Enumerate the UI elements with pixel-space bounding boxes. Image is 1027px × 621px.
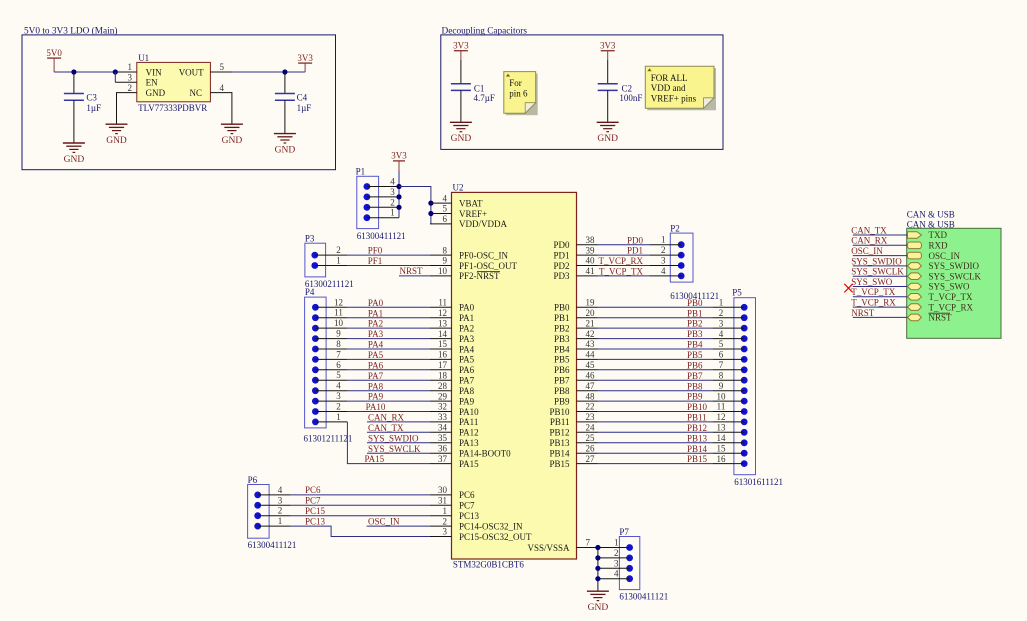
svg-text:CAN_RX: CAN_RX — [368, 413, 405, 423]
svg-text:3V3: 3V3 — [391, 151, 407, 161]
power flag 5V0 — [46, 48, 62, 72]
connector P7 61300411121 — [619, 527, 668, 602]
wire net PB5 (U2 to P5.6) — [598, 350, 712, 360]
P1 pin 2 — [364, 197, 400, 210]
wire net T_VCP_RX to sheet pin T_VCP_RX — [851, 298, 907, 308]
svg-text:40: 40 — [586, 256, 596, 266]
P4 pin 2 — [312, 402, 347, 415]
connector P3 61300211121 — [305, 234, 354, 289]
no-connect marker (red X) at SYS_SWO — [844, 284, 852, 293]
svg-text:2: 2 — [614, 548, 619, 558]
wire net PF1 (P3.1 to U2.9) — [347, 256, 430, 266]
U2 pin 6 (VDD/VDDA) — [430, 214, 507, 229]
wire net CAN_TX to sheet pin TXD — [851, 225, 907, 235]
svg-text:PC14-OSC32_IN: PC14-OSC32_IN — [459, 521, 523, 531]
P7 pin 1 — [598, 538, 633, 551]
wire net SYS_SWDIO at U2 — [367, 433, 430, 443]
U2 pin 43 (PB4) — [554, 339, 598, 354]
svg-text:4: 4 — [443, 193, 448, 203]
svg-text:16: 16 — [717, 454, 727, 464]
svg-text:PB0: PB0 — [687, 298, 703, 308]
svg-text:PC13: PC13 — [459, 511, 480, 521]
svg-text:4.7µF: 4.7µF — [474, 93, 495, 103]
U2 pin 23 (PB11) — [550, 412, 598, 427]
svg-text:PB5: PB5 — [687, 350, 703, 360]
junction P7 bus row 4 — [595, 576, 600, 581]
svg-text:PB15: PB15 — [549, 459, 570, 469]
svg-text:12: 12 — [438, 308, 447, 318]
U1 pin 3 (EN) — [115, 73, 137, 83]
P4 pin 9 — [312, 329, 347, 342]
wire net PB11 (U2 to P5.12) — [598, 413, 712, 423]
svg-text:NRST: NRST — [929, 313, 953, 323]
svg-text:2: 2 — [278, 506, 283, 516]
svg-text:PD1: PD1 — [627, 246, 643, 256]
svg-text:1: 1 — [278, 516, 283, 526]
P6 pin 4 — [254, 485, 290, 498]
svg-text:RXD: RXD — [929, 241, 949, 251]
junction at C3 top — [71, 69, 76, 74]
connector P1 61300411121 — [356, 167, 406, 242]
svg-text:NRST: NRST — [400, 266, 424, 276]
svg-text:9: 9 — [443, 256, 448, 266]
junction at U2 VREF+ — [428, 211, 433, 216]
wire net PA8 — [347, 381, 430, 391]
sheet pin RXD — [908, 241, 949, 251]
svg-text:PF2-NRST: PF2-NRST — [459, 271, 500, 281]
U2 pin 14 (PA3) — [430, 329, 475, 344]
svg-text:PB6: PB6 — [687, 360, 703, 370]
P1 pin 4 — [364, 177, 400, 190]
svg-text:33: 33 — [438, 412, 448, 422]
svg-text:PB13: PB13 — [549, 438, 570, 448]
svg-text:PB7: PB7 — [554, 376, 570, 386]
wire net PA3 — [347, 329, 430, 339]
svg-text:4: 4 — [614, 569, 619, 579]
svg-text:SYS_SWO: SYS_SWO — [851, 277, 893, 287]
svg-text:21: 21 — [586, 318, 595, 328]
P5 pin 13 — [712, 423, 747, 436]
wire net SYS_SWCLK to sheet pin SYS_SWCLK — [851, 267, 907, 277]
svg-text:PB2: PB2 — [554, 323, 570, 333]
svg-text:3: 3 — [614, 558, 619, 568]
svg-text:C3: C3 — [86, 92, 97, 102]
sheet pin NRST — [908, 313, 953, 323]
wire net PC6 (P6.4 to U2.30) — [291, 485, 430, 495]
svg-text:P7: P7 — [619, 527, 629, 537]
sheet area box: Decoupling Capacitors — [441, 26, 723, 149]
svg-text:PA5: PA5 — [459, 355, 475, 365]
wire net PB0 (U2 to P5.1) — [598, 298, 712, 308]
P1 pin 3 — [364, 187, 400, 200]
svg-text:pin 6: pin 6 — [509, 89, 528, 99]
svg-text:8: 8 — [336, 339, 341, 349]
wire net PB2 (U2 to P5.3) — [598, 319, 712, 329]
svg-text:T_VCP_TX: T_VCP_TX — [851, 287, 896, 297]
wire net SYS_SWCLK at U2 — [367, 444, 430, 454]
svg-text:PB14: PB14 — [549, 449, 570, 459]
svg-text:PA3: PA3 — [368, 329, 384, 339]
svg-text:PA11: PA11 — [459, 417, 478, 427]
svg-text:37: 37 — [438, 454, 448, 464]
sheet pin OSC_IN — [908, 251, 961, 261]
svg-text:PF1: PF1 — [368, 256, 383, 266]
U2 pin 3 (PC15-OSC32_OUT) — [430, 527, 532, 542]
svg-text:VSS/VSSA: VSS/VSSA — [527, 543, 570, 553]
sheet pin TXD — [908, 230, 948, 240]
sheet pin T_VCP_TX — [908, 292, 974, 302]
sheet symbol CAN & USB — [907, 209, 1001, 338]
wire net SYS_SWDIO to sheet pin SYS_SWDIO — [851, 256, 907, 266]
svg-text:18: 18 — [438, 370, 448, 380]
U1 pin 5 (VOUT) — [210, 62, 232, 72]
svg-text:PA2: PA2 — [368, 319, 383, 329]
power flag 3V3 at LDO output — [297, 53, 313, 72]
svg-text:PD2: PD2 — [553, 261, 569, 271]
svg-text:PB3: PB3 — [554, 334, 570, 344]
svg-text:1: 1 — [719, 298, 724, 308]
svg-text:1: 1 — [390, 208, 395, 218]
U2 pin 34 (PA12) — [430, 423, 479, 438]
svg-text:PB8: PB8 — [687, 381, 703, 391]
svg-text:2: 2 — [336, 245, 341, 255]
wire net OSC_IN to U2.2 — [367, 516, 430, 526]
svg-text:8: 8 — [443, 245, 448, 255]
U2 pin 26 (PB14) — [549, 443, 597, 458]
svg-text:7: 7 — [336, 349, 341, 359]
U2 pin 20 (PB1) — [554, 308, 598, 323]
wire net OSC_IN to sheet pin OSC_IN — [851, 246, 907, 256]
P7 pin 4 — [598, 569, 633, 582]
regulator U1 body — [137, 53, 211, 113]
U2 pin 10 (PF2-NRST) — [430, 266, 500, 281]
svg-text:GND: GND — [222, 136, 243, 146]
svg-text:CAN_TX: CAN_TX — [368, 423, 404, 433]
svg-text:4: 4 — [278, 485, 283, 495]
svg-text:PB9: PB9 — [687, 392, 703, 402]
P3 pin 2 — [311, 245, 347, 258]
svg-text:3: 3 — [390, 187, 395, 197]
P5 pin 16 — [712, 454, 747, 467]
P4 pin 12 — [312, 297, 347, 310]
P5 pin 12 — [712, 412, 747, 425]
svg-text:PD0: PD0 — [627, 235, 644, 245]
wire net PF0 (P3.2 to U2.8) — [347, 245, 430, 255]
svg-text:GND: GND — [146, 88, 166, 98]
svg-text:PA10: PA10 — [366, 402, 386, 412]
wire P1 to U2 power pins — [399, 187, 431, 224]
ground GND under C4 — [274, 134, 296, 156]
svg-text:C1: C1 — [474, 83, 485, 93]
svg-text:46: 46 — [586, 370, 596, 380]
wire net PC13 (P6.1 to U2.3) — [291, 516, 430, 536]
wire net PB3 (U2 to P5.4) — [598, 329, 712, 339]
svg-text:VOUT: VOUT — [179, 67, 204, 77]
U2 pin 7 (VSS/VSSA) — [527, 538, 597, 553]
U2 pin 45 (PB6) — [554, 360, 598, 375]
svg-text:PB11: PB11 — [687, 413, 707, 423]
P2 pin 3 — [649, 256, 684, 269]
svg-text:PC13: PC13 — [305, 516, 326, 526]
U2 pin 32 (PA10) — [430, 402, 479, 417]
ground GND under C2 — [597, 122, 619, 144]
P2 pin 1 — [649, 235, 684, 248]
svg-text:14: 14 — [717, 433, 727, 443]
svg-text:3: 3 — [719, 318, 724, 328]
P4 pin 10 — [312, 318, 347, 331]
svg-text:43: 43 — [586, 339, 596, 349]
P4 pin 3 — [312, 391, 347, 404]
svg-text:6: 6 — [336, 360, 341, 370]
U2 pin 31 (PC7) — [430, 496, 475, 511]
svg-text:5V0 to 3V3 LDO (Main): 5V0 to 3V3 LDO (Main) — [24, 25, 117, 36]
P4 pin 6 — [312, 360, 347, 373]
svg-text:PA12: PA12 — [459, 428, 479, 438]
power flag 3V3 at P1 — [391, 151, 407, 171]
svg-text:PA10: PA10 — [459, 407, 479, 417]
P5 pin 1 — [712, 298, 747, 311]
U2 pin 33 (PA11) — [430, 412, 478, 427]
P6 pin 3 — [254, 495, 290, 508]
svg-text:P5: P5 — [732, 288, 742, 298]
svg-text:3: 3 — [661, 256, 666, 266]
svg-text:5: 5 — [220, 62, 225, 72]
P4 pin 11 — [312, 308, 347, 321]
svg-text:SYS_SWDIO: SYS_SWDIO — [368, 433, 419, 443]
svg-text:PA1: PA1 — [368, 308, 383, 318]
svg-text:VDD and: VDD and — [651, 83, 686, 93]
U2 pin 24 (PB12) — [549, 423, 597, 438]
svg-text:EN: EN — [146, 78, 158, 88]
svg-text:5: 5 — [719, 339, 724, 349]
P5 pin 14 — [712, 433, 747, 446]
svg-text:12: 12 — [334, 297, 343, 307]
svg-text:PB1: PB1 — [554, 313, 570, 323]
svg-text:PA8: PA8 — [459, 386, 475, 396]
svg-text:29: 29 — [438, 391, 448, 401]
U2 pin 5 (VREF+) — [430, 204, 487, 219]
svg-text:PA14-BOOT0: PA14-BOOT0 — [459, 449, 511, 459]
svg-text:NC: NC — [189, 88, 202, 98]
wire net PB13 (U2 to P5.14) — [598, 433, 712, 443]
wire P1 bus vertical — [398, 187, 400, 218]
svg-text:P6: P6 — [248, 475, 258, 485]
svg-text:13: 13 — [717, 423, 727, 433]
svg-text:5V0: 5V0 — [46, 48, 62, 58]
svg-text:OSC_IN: OSC_IN — [851, 246, 883, 256]
svg-text:61300411121: 61300411121 — [357, 231, 406, 241]
svg-text:PA7: PA7 — [368, 371, 384, 381]
svg-text:C2: C2 — [622, 83, 633, 93]
U2 pin 2 (PC14-OSC32_IN) — [430, 516, 523, 531]
svg-text:61301211121: 61301211121 — [304, 434, 353, 444]
svg-text:1: 1 — [614, 538, 619, 548]
svg-text:PB4: PB4 — [554, 344, 570, 354]
svg-text:1: 1 — [336, 412, 341, 422]
svg-text:61301611121: 61301611121 — [734, 477, 783, 487]
wire net NRST to U2.10 — [399, 266, 430, 276]
ground GND under U1 pin 2 — [106, 124, 128, 146]
wire net PA6 — [347, 360, 430, 370]
svg-text:6: 6 — [719, 350, 724, 360]
capacitor C4 1uF — [275, 72, 311, 134]
svg-text:2: 2 — [336, 402, 341, 412]
svg-text:19: 19 — [586, 298, 596, 308]
wire U2 VSS to P7 bus — [597, 547, 599, 549]
power flag 3V3 above C2 — [600, 41, 616, 61]
svg-text:PA15: PA15 — [365, 454, 385, 464]
wire net NRST to sheet pin NRST — [851, 308, 907, 318]
svg-text:14: 14 — [438, 329, 448, 339]
U2 pin 29 (PA9) — [430, 391, 475, 406]
svg-text:PB1: PB1 — [687, 308, 703, 318]
U2 pin 15 (PA4) — [430, 339, 475, 354]
svg-text:PB3: PB3 — [687, 329, 703, 339]
wire net PC7 (P6.3 to U2.31) — [291, 496, 430, 506]
svg-text:P3: P3 — [305, 234, 315, 244]
svg-text:4: 4 — [390, 177, 395, 187]
svg-text:11: 11 — [438, 298, 447, 308]
svg-text:25: 25 — [586, 433, 596, 443]
wire net PA1 — [347, 308, 430, 318]
svg-text:GND: GND — [275, 145, 296, 155]
P3 pin 1 — [311, 256, 347, 269]
P5 pin 5 — [712, 339, 747, 352]
svg-text:27: 27 — [586, 454, 596, 464]
wire net PB9 (U2 to P5.10) — [598, 392, 712, 402]
svg-text:10: 10 — [438, 266, 448, 276]
svg-text:3: 3 — [128, 73, 133, 83]
wire net PB14 (U2 to P5.15) — [598, 444, 712, 454]
svg-text:3V3: 3V3 — [453, 41, 469, 51]
svg-text:T_VCP_RX: T_VCP_RX — [598, 256, 643, 266]
svg-text:1: 1 — [128, 62, 133, 72]
svg-text:PB6: PB6 — [554, 365, 570, 375]
svg-text:41: 41 — [586, 266, 595, 276]
junction P1 bus row4 — [396, 184, 401, 189]
svg-text:P1: P1 — [356, 167, 366, 177]
svg-text:SYS_SWO: SYS_SWO — [929, 282, 971, 292]
svg-text:PF1-OSC_OUT: PF1-OSC_OUT — [459, 261, 518, 271]
P6 pin 2 — [254, 506, 290, 519]
svg-text:NRST: NRST — [851, 308, 875, 318]
svg-text:PB9: PB9 — [554, 396, 570, 406]
U2 pin 41 (PD3) — [553, 266, 597, 281]
wire net PB4 (U2 to P5.5) — [598, 340, 712, 350]
svg-text:PB13: PB13 — [687, 433, 708, 443]
svg-text:47: 47 — [586, 381, 596, 391]
svg-text:PC6: PC6 — [459, 490, 475, 500]
svg-text:4: 4 — [661, 266, 666, 276]
connector P4 61301211121 — [304, 287, 353, 444]
connector P2 61300411121 — [670, 223, 719, 300]
U2 pin 42 (PB3) — [554, 329, 598, 344]
U2 pin 47 (PB8) — [554, 381, 598, 396]
U2 pin 4 (VBAT) — [430, 193, 483, 208]
svg-text:48: 48 — [586, 391, 596, 401]
wire net CAN_TX at U2 — [367, 423, 430, 433]
svg-text:PA6: PA6 — [459, 365, 475, 375]
svg-text:PA9: PA9 — [368, 392, 384, 402]
svg-text:P2: P2 — [670, 223, 680, 233]
svg-text:31: 31 — [438, 496, 447, 506]
sheet pin SYS_SWCLK — [908, 271, 982, 281]
svg-text:VBAT: VBAT — [459, 198, 483, 208]
svg-text:GND: GND — [588, 603, 609, 613]
svg-text:SYS_SWCLK: SYS_SWCLK — [929, 271, 982, 281]
U2 pin 30 (PC6) — [430, 485, 475, 500]
P1 pin 1 — [364, 208, 400, 221]
svg-text:PB5: PB5 — [554, 355, 570, 365]
svg-text:28: 28 — [438, 381, 448, 391]
wire 5V0 to U1 VIN — [54, 71, 115, 73]
svg-text:45: 45 — [586, 360, 596, 370]
svg-text:PF0-OSC_IN: PF0-OSC_IN — [459, 250, 509, 260]
svg-text:6: 6 — [443, 214, 448, 224]
svg-text:T_VCP_TX: T_VCP_TX — [929, 292, 974, 302]
svg-text:PA4: PA4 — [459, 344, 475, 354]
junction P7 bus row 2 — [595, 555, 600, 560]
P5 pin 15 — [712, 443, 747, 456]
svg-text:39: 39 — [586, 245, 596, 255]
wire net SYS_SWO to sheet pin SYS_SWO — [851, 277, 907, 287]
U2 pin 39 (PD1) — [553, 245, 597, 260]
U2 pin 12 (PA1) — [430, 308, 474, 323]
svg-text:1µF: 1µF — [86, 103, 101, 113]
wire 3V3 down to P1 bus — [398, 171, 400, 187]
svg-text:OSC_IN: OSC_IN — [929, 251, 961, 261]
svg-text:PA0: PA0 — [368, 298, 384, 308]
svg-text:PB12: PB12 — [687, 423, 707, 433]
svg-text:36: 36 — [438, 443, 448, 453]
svg-text:3V3: 3V3 — [600, 41, 616, 51]
junction at U1 EN branch — [113, 69, 118, 74]
svg-text:PA6: PA6 — [368, 360, 384, 370]
wire net PB15 (U2 to P5.16) — [598, 454, 712, 464]
note sticky: For pin 6 — [504, 72, 538, 116]
svg-text:2: 2 — [390, 197, 395, 207]
wire net PB7 (U2 to P5.8) — [598, 371, 712, 381]
P7 pin 3 — [598, 558, 633, 571]
svg-text:FOR ALL: FOR ALL — [651, 73, 688, 83]
wire net PA5 — [347, 350, 430, 360]
P4 pin 4 — [312, 381, 347, 394]
P4 pin 5 — [312, 370, 347, 383]
svg-text:3V3: 3V3 — [297, 53, 313, 63]
svg-text:7: 7 — [586, 538, 591, 548]
wire net PA0 — [347, 298, 430, 308]
junction at U2 VBAT — [428, 201, 433, 206]
U2 pin 38 (PD0) — [553, 235, 597, 250]
junction P7 bus row 3 — [595, 566, 600, 571]
svg-text:44: 44 — [586, 350, 596, 360]
U2 pin 9 (PF1-OSC_OUT) — [430, 256, 518, 271]
U2 pin 17 (PA6) — [430, 360, 475, 375]
U2 pin 44 (PB5) — [554, 350, 598, 365]
svg-text:U1: U1 — [138, 53, 149, 63]
svg-text:3: 3 — [336, 391, 341, 401]
svg-text:22: 22 — [586, 402, 595, 412]
wire net PB1 (U2 to P5.2) — [598, 308, 712, 318]
P5 pin 11 — [712, 402, 747, 415]
svg-text:12: 12 — [717, 412, 726, 422]
svg-text:PA4: PA4 — [368, 340, 384, 350]
svg-text:61300411121: 61300411121 — [248, 540, 297, 550]
sheet pin T_VCP_RX — [908, 302, 974, 312]
svg-text:38: 38 — [586, 235, 596, 245]
svg-text:PF0: PF0 — [368, 245, 383, 255]
svg-text:16: 16 — [438, 350, 448, 360]
